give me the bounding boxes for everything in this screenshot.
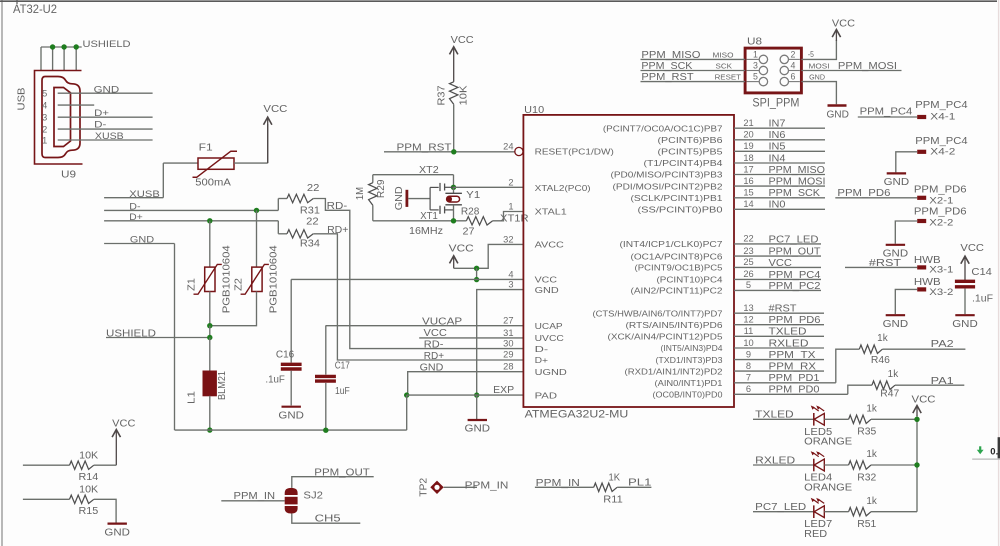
svg-text:F1: F1: [199, 142, 214, 153]
svg-text:VCC: VCC: [832, 18, 856, 30]
svg-text:ORANGE: ORANGE: [804, 482, 852, 493]
svg-text:29: 29: [503, 350, 513, 360]
svg-text:X2-2: X2-2: [929, 217, 953, 227]
pin 24 inverting bubble: [515, 147, 523, 155]
svg-text:VCC: VCC: [451, 34, 474, 46]
svg-text:GND: GND: [826, 109, 849, 121]
svg-text:PPM_PC4: PPM_PC4: [860, 106, 913, 117]
wire C16 bottom: [290, 371, 292, 406]
svg-text:#RST: #RST: [869, 258, 901, 269]
svg-text:.1uF: .1uF: [972, 293, 993, 304]
wire LED4 to R32: [824, 464, 848, 466]
junction USHIELD: [207, 335, 212, 340]
power VCC (fuse): [267, 119, 269, 164]
svg-text:PPM_SCK: PPM_SCK: [641, 61, 692, 72]
capacitor C14 .1uF: [955, 280, 975, 283]
svg-text:(CTS/HWB/AIN6/TO/INT7)PD7: (CTS/HWB/AIN6/TO/INT7)PD7: [593, 308, 723, 318]
svg-text:PAD: PAD: [535, 390, 557, 400]
svg-text:U8: U8: [747, 36, 762, 48]
wire XUSB up to fuse: [162, 163, 164, 198]
svg-text:PPM_PD0: PPM_PD0: [769, 385, 820, 396]
pin 11 wire TXLED: [734, 335, 824, 337]
resistor R32 1k: [849, 461, 871, 469]
wire Z1 vertical: [209, 221, 211, 267]
ground (pin3/EXP): [468, 419, 487, 421]
wire R51 to VCC rail: [871, 511, 917, 513]
svg-text:RESET(PC1/DW): RESET(PC1/DW): [535, 147, 614, 157]
svg-text:GND: GND: [535, 285, 559, 295]
svg-text:PPM_OUT: PPM_OUT: [769, 247, 821, 258]
power VCC (AVCC): [453, 257, 455, 268]
svg-text:RXLED: RXLED: [755, 455, 795, 466]
pad X2-2: [917, 219, 926, 223]
svg-text:9: 9: [746, 349, 751, 359]
svg-text:(PCINT6)PB6: (PCINT6)PB6: [658, 135, 723, 145]
capacitor C17 1uF: [315, 375, 336, 378]
svg-text:(PCINT5)PB5: (PCINT5)PB5: [658, 147, 723, 157]
net XT2 wire: [373, 174, 454, 176]
svg-text:X4-2: X4-2: [930, 146, 955, 156]
frame border: [1, 0, 3, 546]
wire C17 top to VUCAP: [325, 326, 327, 375]
resistor R28 27: [466, 217, 492, 225]
svg-text:D-: D-: [535, 344, 549, 354]
svg-text:VCC: VCC: [112, 417, 136, 429]
svg-text:24: 24: [503, 142, 513, 152]
led LED4 ORANGE: [813, 459, 815, 472]
wire L1 to ground bus: [209, 396, 211, 430]
svg-text:TXLED: TXLED: [755, 410, 794, 421]
svg-text:(OC1A/PCINT8)PC6: (OC1A/PCINT8)PC6: [631, 251, 723, 261]
wire shield stubs: [40, 47, 42, 71]
svg-text:UCAP: UCAP: [535, 321, 563, 331]
wire XT2 down to crystal: [453, 175, 455, 188]
svg-text:(OC0B/INT0)PD0: (OC0B/INT0)PD0: [653, 390, 723, 400]
wire R31 to RD- label and down to U10 D-: [313, 199, 523, 349]
svg-text:SCK: SCK: [716, 62, 733, 71]
svg-text:PPM_RST: PPM_RST: [397, 143, 452, 154]
net PPM_RST wire: [384, 151, 515, 153]
svg-text:GND: GND: [884, 176, 910, 188]
wire SJ2 to CH5: [292, 514, 361, 524]
svg-text:1uF: 1uF: [335, 386, 350, 397]
resistor R14 10K: [70, 461, 94, 469]
svg-text:4: 4: [508, 269, 513, 279]
svg-text:GND: GND: [394, 186, 405, 210]
junction AVCC/VCC: [474, 266, 479, 271]
net PPM_MOSI wire: [801, 70, 901, 72]
svg-text:PPM_MISO: PPM_MISO: [769, 165, 826, 176]
svg-text:(SS/PCINT0)PB0: (SS/PCINT0)PB0: [638, 205, 723, 215]
net PPM_SCK wire: [641, 70, 746, 72]
svg-text:14: 14: [743, 199, 753, 209]
svg-text:2: 2: [42, 125, 47, 136]
net PPM_PC4 wire to X4-1: [858, 116, 917, 118]
crystal Y1: [453, 187, 455, 193]
wire LED7 to R51: [824, 511, 848, 513]
net PPM_IN wire to R11: [535, 486, 594, 488]
svg-text:RXLED: RXLED: [769, 338, 809, 349]
wire U8 pin2 to VCC: [801, 40, 836, 59]
svg-text:PPM_PC4: PPM_PC4: [769, 270, 821, 281]
wire Z2 bottom to junction: [210, 292, 257, 326]
svg-text:30: 30: [503, 339, 513, 349]
svg-text:IN4: IN4: [769, 153, 786, 164]
svg-text:TP2: TP2: [419, 478, 430, 497]
svg-text:1K: 1K: [609, 473, 621, 484]
pin 5 wire GND: [58, 92, 153, 94]
wire R32 to VCC rail: [871, 464, 917, 466]
resistor R31 22: [278, 198, 287, 200]
svg-text:1: 1: [508, 202, 513, 212]
pin 9 wire PPM_TX: [734, 359, 824, 361]
svg-text:XTAL2(PC0): XTAL2(PC0): [535, 183, 591, 193]
junction UGND/EXP: [404, 392, 409, 397]
pin 1 wire XUSB: [58, 139, 153, 141]
svg-text:MOSI: MOSI: [809, 61, 830, 70]
svg-text:1k: 1k: [866, 404, 877, 415]
net EXP wire: [407, 394, 524, 396]
wire R35 to VCC rail: [871, 418, 917, 420]
svg-text:R32: R32: [857, 472, 876, 483]
net PPM_RST wire (u8): [641, 81, 746, 83]
pin 2 wire D-: [58, 128, 153, 130]
svg-text:5: 5: [753, 72, 758, 82]
svg-text:PA1: PA1: [931, 375, 954, 387]
pad X4-1: [917, 115, 926, 119]
svg-text:11: 11: [744, 326, 754, 336]
wire left to R14: [23, 464, 70, 466]
wire fuse to VCC: [234, 162, 268, 164]
svg-text:27: 27: [503, 316, 513, 326]
net PPM_IN wire to SJ2: [221, 500, 284, 502]
pin 13 wire #RST: [734, 312, 824, 314]
led LED5 ORANGE: [813, 413, 815, 426]
svg-text:27: 27: [463, 227, 475, 238]
pad X4-2: [917, 150, 926, 154]
svg-text:PPM_MISO: PPM_MISO: [641, 50, 700, 61]
wire VCC rail vertical: [916, 416, 918, 512]
svg-text:21: 21: [743, 118, 753, 128]
svg-text:ATMEGA32U2-MU: ATMEGA32U2-MU: [525, 408, 629, 420]
net VCC line (pin4): [291, 278, 523, 280]
wire R37 to PPM_RST: [453, 104, 455, 152]
svg-text:(TXD1/INT3)PD3: (TXD1/INT3)PD3: [656, 355, 723, 365]
svg-text:AT32-U2: AT32-U2: [13, 4, 57, 16]
power VCC (C14): [964, 258, 966, 280]
svg-text:IN6: IN6: [769, 130, 786, 141]
power VCC (led rail): [916, 407, 918, 416]
capacitor C16 .1uF: [281, 363, 302, 366]
wire R11 to PL1: [617, 486, 651, 488]
ground (R15): [108, 522, 127, 524]
svg-text:PPM_PD6: PPM_PD6: [837, 188, 890, 199]
wire PPM_PD1 up to R46: [836, 349, 860, 383]
pin 26 wire PPM_PC4: [734, 278, 821, 280]
junction Z1/Z2: [207, 323, 212, 328]
wire R15 to GND: [94, 499, 116, 522]
svg-text:XUSB: XUSB: [95, 131, 124, 141]
svg-text:1M: 1M: [355, 187, 366, 200]
svg-text:R46: R46: [871, 355, 891, 366]
svg-text:XT1: XT1: [420, 211, 438, 222]
resistor R37 10K: [450, 82, 458, 105]
svg-text:GND: GND: [809, 73, 825, 82]
svg-text:XTAL1: XTAL1: [535, 207, 567, 217]
svg-text:PPM_PC4: PPM_PC4: [915, 100, 968, 111]
ground (U8): [828, 104, 847, 107]
svg-text:-5: -5: [808, 50, 815, 59]
svg-text:VCC: VCC: [769, 258, 792, 269]
pin 15 wire PPM_SCK: [734, 197, 825, 199]
svg-text:RD-: RD-: [327, 201, 348, 212]
svg-text:ORANGE: ORANGE: [804, 437, 852, 448]
power VCC (U8): [835, 31, 837, 41]
svg-text:C17: C17: [335, 361, 350, 372]
svg-text:PPM_RST: PPM_RST: [641, 72, 693, 83]
svg-text:C14: C14: [971, 267, 992, 278]
pin 4 wire: [58, 104, 94, 106]
svg-text:GND: GND: [104, 526, 130, 538]
svg-text:SPI_PPM: SPI_PPM: [752, 98, 799, 110]
fuse F1: [198, 158, 234, 169]
wire R46 to PA2: [882, 348, 965, 350]
svg-text:XT1R: XT1R: [500, 213, 529, 224]
svg-text:D+: D+: [535, 355, 549, 365]
svg-text:Y1: Y1: [466, 189, 480, 201]
power VCC (R14): [115, 431, 117, 465]
junction D- / Z2: [254, 208, 259, 213]
svg-text:5: 5: [42, 89, 47, 100]
wire AVCC: [477, 244, 524, 268]
svg-text:VCC: VCC: [449, 243, 474, 255]
svg-text:(PD0/MISO/PCINT3)PB3: (PD0/MISO/PCINT3)PB3: [611, 170, 723, 180]
pin 8 wire PPM_RX: [734, 370, 824, 372]
svg-text:6: 6: [746, 384, 751, 394]
wire U8 pin6 to GND: [801, 82, 836, 105]
svg-text:USB: USB: [16, 88, 28, 111]
testpoint TP2: [430, 481, 443, 494]
svg-text:XT2: XT2: [419, 165, 439, 176]
svg-text:TXLED: TXLED: [769, 327, 807, 338]
pin 7 wire PPM_PD1: [734, 382, 836, 384]
junction L1/bus: [207, 427, 212, 432]
pad X3-2: [917, 287, 926, 291]
svg-text:25: 25: [743, 257, 753, 267]
wire PPM_PD0 up to R47: [848, 385, 872, 394]
wire crystal pin2 to U10: [454, 186, 524, 188]
resistor R47 1k: [872, 381, 895, 389]
svg-text:2: 2: [790, 49, 795, 59]
svg-text:PPM_MOSI: PPM_MOSI: [769, 177, 826, 188]
svg-text:R51: R51: [857, 519, 876, 530]
svg-text:(PCINT10)PC4: (PCINT10)PC4: [657, 275, 723, 285]
wire USHIELD horizontal: [41, 46, 82, 48]
resistor R15 10K: [70, 495, 94, 503]
junction GND/EXP: [474, 392, 479, 397]
svg-text:X3-1: X3-1: [929, 264, 953, 274]
pin 12 wire PPM_PD6: [734, 324, 824, 326]
led LED7 RED: [813, 505, 815, 518]
wire GND pin3 down: [477, 290, 524, 396]
svg-text:(INT4/ICP1/CLK0)PC7: (INT4/ICP1/CLK0)PC7: [620, 239, 723, 249]
solder jumper SJ2: [285, 488, 298, 495]
svg-text:IN5: IN5: [769, 142, 786, 153]
svg-text:VCC: VCC: [535, 275, 557, 285]
svg-text:3: 3: [753, 61, 758, 71]
svg-text:X4-1: X4-1: [930, 112, 955, 122]
svg-text:RED: RED: [804, 529, 827, 540]
svg-text:31: 31: [503, 328, 513, 338]
junction XTAL2: [451, 185, 456, 190]
svg-text:4: 4: [790, 61, 795, 71]
svg-text:1k: 1k: [888, 369, 899, 380]
svg-text:BLM21: BLM21: [217, 371, 228, 400]
svg-text:2: 2: [508, 178, 513, 188]
wire C14 to GND: [964, 289, 966, 315]
svg-text:7: 7: [746, 373, 751, 383]
resistor R35 1k: [849, 415, 871, 423]
svg-text:D+: D+: [94, 108, 109, 118]
svg-text:PPM_PC2: PPM_PC2: [769, 281, 821, 292]
svg-text:15: 15: [743, 188, 753, 198]
net VCC stub (UVCC): [419, 337, 523, 339]
svg-text:PPM_SCK: PPM_SCK: [769, 188, 821, 199]
svg-text:3: 3: [42, 113, 47, 124]
ground (C14): [955, 314, 974, 316]
svg-text:PPM_IN: PPM_IN: [536, 478, 580, 489]
svg-text:R31: R31: [300, 206, 320, 217]
svg-text:CH5: CH5: [315, 514, 342, 525]
svg-text:10K: 10K: [79, 450, 99, 461]
pin 18 wire IN4: [734, 162, 825, 164]
svg-text:RESET: RESET: [715, 73, 742, 82]
junction XTAL1: [451, 218, 456, 223]
svg-text:R35: R35: [857, 427, 877, 438]
net PPM_PD6 wire to X2-1: [835, 197, 917, 199]
svg-text:32: 32: [503, 234, 513, 244]
ground C16: [282, 406, 301, 408]
pin 21 wire IN7: [734, 127, 825, 129]
wire crystal bottom to XT1: [453, 205, 455, 221]
svg-text:VCC: VCC: [912, 393, 936, 405]
junction rail row2: [914, 462, 919, 467]
junction C17/bus: [323, 428, 328, 433]
svg-text:RD+: RD+: [424, 351, 444, 362]
svg-text:PPM_IN: PPM_IN: [234, 491, 276, 502]
svg-text:8: 8: [746, 361, 751, 371]
svg-text:C16: C16: [276, 350, 295, 361]
wire LED5 to R35: [824, 418, 848, 420]
svg-text:R34: R34: [300, 238, 321, 249]
wire D- up to R31: [277, 199, 279, 211]
net PPM_MISO wire: [641, 58, 746, 60]
svg-text:(PDI/MOSI/PCINT2)PB2: (PDI/MOSI/PCINT2)PB2: [613, 181, 723, 191]
svg-text:5: 5: [746, 280, 751, 290]
wire USHIELD to L1: [209, 338, 211, 372]
svg-text:UVCC: UVCC: [535, 333, 564, 343]
svg-text:500mA: 500mA: [195, 178, 231, 189]
svg-text:#RST: #RST: [769, 304, 797, 315]
svg-text:IN7: IN7: [769, 119, 786, 130]
svg-text:PPM_PC4: PPM_PC4: [915, 136, 968, 147]
svg-text:VUCAP: VUCAP: [422, 316, 462, 327]
svg-text:(PCINT9/OC1B)PC5: (PCINT9/OC1B)PC5: [635, 263, 723, 273]
svg-text:10K: 10K: [459, 85, 470, 106]
pin 25 wire VCC: [734, 266, 821, 268]
svg-text:1k: 1k: [866, 449, 877, 460]
svg-text:(RXD1/AIN1/INT2)PD2: (RXD1/AIN1/INT2)PD2: [625, 366, 723, 376]
svg-text:PPM_PD6: PPM_PD6: [769, 315, 821, 326]
svg-text:PC7_LED: PC7_LED: [769, 234, 819, 245]
svg-text:(XCK/AIN4/PCINT12)PD5: (XCK/AIN4/PCINT12)PD5: [608, 332, 723, 342]
wire VCC junction down: [476, 268, 478, 279]
pin 6 wire PPM_PD0: [734, 393, 848, 395]
ground (X3-2): [886, 314, 905, 316]
svg-text:PPM_PD1: PPM_PD1: [769, 373, 820, 384]
svg-text:16MHz: 16MHz: [409, 226, 443, 237]
svg-text:1: 1: [42, 136, 47, 147]
svg-text:10: 10: [743, 338, 753, 348]
wire bus up to EXP: [406, 395, 408, 430]
net VUCAP wire: [326, 325, 524, 327]
svg-text:GND: GND: [94, 84, 120, 94]
resistor R11 1K: [594, 483, 617, 491]
svg-text:16: 16: [743, 176, 753, 186]
svg-text:L1: L1: [187, 391, 198, 404]
pin 5 wire PPM_PC2: [734, 289, 821, 291]
svg-text:6: 6: [790, 72, 795, 82]
ic U10 ATMEGA32U2-MU box: [523, 115, 734, 407]
header U8 box: [745, 48, 801, 93]
USB connector U9 outer bracket: [35, 71, 83, 165]
wire ground bus: [175, 429, 407, 431]
U8 pin stubs: [747, 58, 760, 60]
svg-text:22: 22: [306, 216, 319, 227]
svg-text:26: 26: [743, 269, 753, 279]
junction PPM_RST/R37: [451, 149, 456, 154]
svg-text:U9: U9: [61, 169, 76, 181]
svg-text:VCC: VCC: [960, 242, 984, 254]
svg-text:PGB1010604: PGB1010604: [269, 245, 280, 314]
pin 14 wire IN0: [734, 208, 825, 210]
svg-text:R29: R29: [376, 179, 387, 198]
varistor Z1 PGB1010604: [205, 267, 215, 291]
wire X2-2 to GND: [895, 221, 917, 244]
svg-text:SJ2: SJ2: [303, 490, 323, 502]
svg-text:VCC: VCC: [263, 103, 287, 115]
svg-text:PPM_TX: PPM_TX: [769, 350, 816, 361]
svg-text:20: 20: [743, 130, 753, 140]
svg-text:VCC: VCC: [424, 328, 447, 339]
pin 22 wire PC7_LED: [734, 243, 821, 245]
net PC7_LED wire to LED7: [753, 511, 814, 513]
svg-text:4: 4: [42, 101, 47, 112]
svg-text:PPM_PD6: PPM_PD6: [914, 184, 967, 195]
overlay right edge bar: [998, 437, 1000, 458]
wire TP2 to PPM_IN: [444, 486, 477, 488]
wire R47 to PA1: [895, 384, 964, 386]
svg-text:22: 22: [743, 234, 753, 244]
svg-text:MISO: MISO: [713, 50, 734, 59]
junction rail row1: [914, 417, 919, 422]
svg-text:GND: GND: [952, 318, 978, 330]
wire VCC to junction: [454, 267, 477, 269]
svg-text:U10: U10: [524, 104, 544, 116]
svg-text:PPM_MOSI: PPM_MOSI: [838, 61, 897, 72]
wire gnd bar to crystal case: [408, 198, 430, 200]
svg-text:PA2: PA2: [931, 338, 954, 350]
